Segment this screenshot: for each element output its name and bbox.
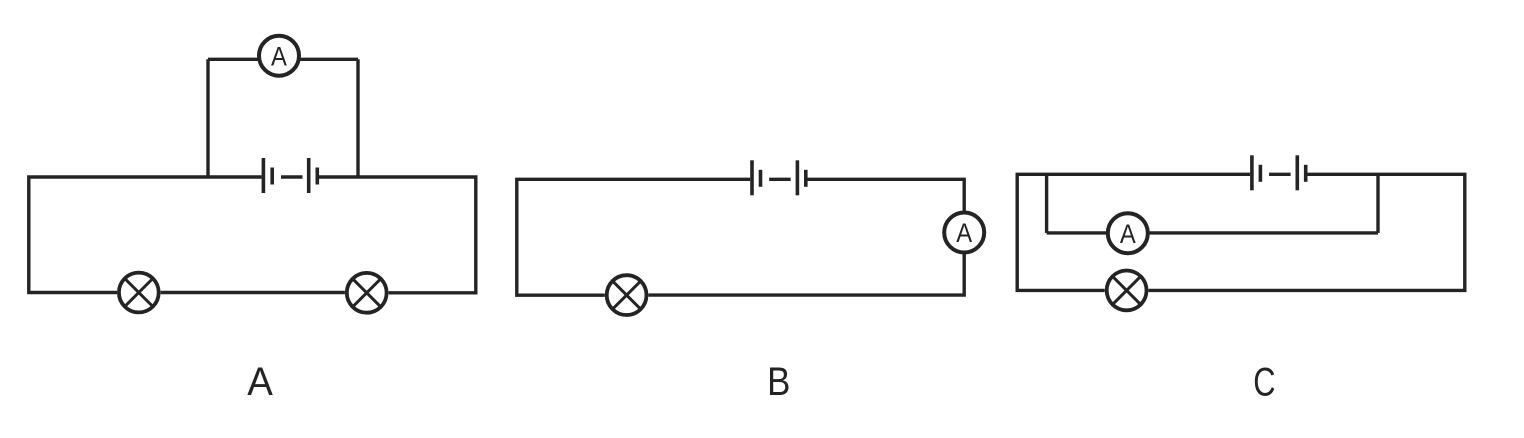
wire: circuit B right vertical above ammeter and top-right back to battery [807,179,964,211]
wire: circuit C ammeter branch right vertical up to top wire [1376,174,1379,233]
ammeter A3 [1108,213,1148,253]
wire: circuit A ammeter branch right horizontal [298,58,358,61]
lamp L1 [119,273,159,313]
wire: circuit C top-left, outer left vertical, bottom-left to lamp L4 [1017,174,1250,290]
svg-text:A: A [271,41,287,71]
wire: circuit A left side (top-left, left vertical, bottom-left to lamp L1) [29,177,262,293]
wire: circuit C ammeter branch left horizontal to ammeter [1047,231,1109,234]
ammeter A1 [259,36,299,76]
svg-text:A: A [956,218,972,248]
wire: circuit A ammeter branch left vertical [206,59,209,177]
svg-text:A: A [247,360,273,404]
lamp L2 [347,273,387,313]
svg-text:A: A [1120,219,1136,249]
wire: circuit C ammeter branch left vertical from top wire [1045,174,1048,233]
battery BT3 (two cells) on circuit C top wire [1252,155,1306,190]
wire: circuit A ammeter branch left horizontal [208,58,260,61]
wire: circuit B top-left, left vertical, bottom-left to lamp L3 [517,179,750,295]
wire: circuit B bottom from lamp to bottom-right corner, up to ammeter [649,254,965,296]
battery BT2 (two cells) on circuit B top wire [752,160,806,195]
wire: circuit A bottom segment between lamps [161,291,345,294]
wire: circuit C bottom from lamp to bottom-right corner, right vertical, top-right back to battery [1149,174,1465,290]
wire: circuit A ammeter branch right vertical [356,59,359,177]
svg-text:B: B [767,360,790,404]
wire: circuit C ammeter branch right horizontal [1147,231,1378,234]
wire: circuit A bottom-right, right vertical and top-right back to battery [319,177,476,293]
lamp L3 [607,275,647,315]
battery BT1 (two cells) on circuit A top wire [263,158,317,193]
svg-text:C: C [1253,361,1275,405]
lamp L4 [1107,271,1147,311]
ammeter A2 [944,213,984,253]
